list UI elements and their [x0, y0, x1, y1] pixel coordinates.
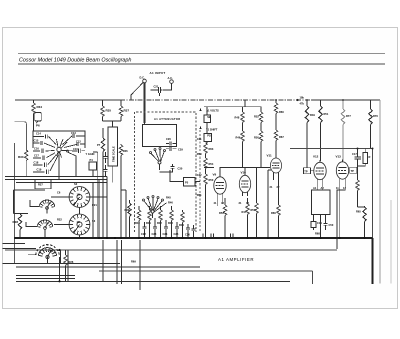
svg-text:47b: 47b [300, 102, 305, 106]
resistor R50 [204, 174, 207, 184]
amplifier band bottom line [99, 271, 313, 284]
wire x33 drop [33, 100, 35, 103]
svg-text:TP: TP [351, 169, 355, 173]
svg-text:C14: C14 [36, 132, 41, 136]
resistor R57 [256, 168, 258, 204]
svg-text:C16: C16 [34, 146, 39, 150]
resistor R64 box [363, 153, 368, 164]
svg-text:TP: TP [304, 169, 308, 173]
capacitor C30b [323, 224, 327, 226]
title rule top [18, 52, 385, 54]
capacitor C24 [164, 227, 168, 229]
junction dots on bus [98, 237, 100, 239]
svg-text:P5: P5 [185, 181, 189, 185]
wire x121 drop [120, 190, 122, 238]
arrow dashed column b [199, 126, 201, 129]
svg-text:R61: R61 [197, 193, 202, 197]
svg-text:R53: R53 [219, 211, 224, 215]
potentiometer P7 [102, 128, 104, 138]
amplifier band top line [5, 249, 337, 251]
wire S2 left [51, 196, 107, 198]
wire S2-S3 link [79, 207, 81, 238]
switch S7 contacts [143, 199, 145, 201]
svg-text:R33: R33 [18, 155, 24, 159]
resistor R66 [278, 180, 280, 205]
capacitor C33 [211, 234, 214, 238]
resistor R39 [129, 200, 131, 203]
svg-text:R27: R27 [38, 183, 43, 187]
svg-text:R45: R45 [166, 196, 171, 200]
svg-text:R48: R48 [235, 116, 240, 120]
svg-text:C18: C18 [34, 160, 39, 164]
svg-text:R46: R46 [236, 136, 241, 140]
svg-text:R39: R39 [125, 208, 130, 212]
junction dots top bus [306, 99, 308, 101]
switch S7 hub [151, 210, 154, 213]
resistor R42 [160, 206, 162, 210]
resistor R43 [171, 206, 173, 210]
attenuator inner screen box [143, 125, 177, 147]
wire triple rail 2 [5, 179, 107, 181]
wire S4 output [59, 152, 76, 180]
svg-text:R42: R42 [157, 221, 162, 225]
resistor R63 [204, 143, 207, 153]
svg-text:R68: R68 [315, 231, 320, 235]
wire [205, 168, 207, 174]
resistor R34 [32, 103, 35, 113]
svg-text:R36: R36 [123, 149, 128, 153]
wire triple rail 1 [5, 176, 107, 178]
capacitor C19b [311, 222, 316, 228]
resistor R53 [224, 198, 226, 205]
rotary switch S2 wafer [69, 187, 90, 208]
svg-text:R57: R57 [251, 208, 256, 212]
capacitor C9 [103, 170, 107, 172]
wire x99 drop [98, 180, 100, 239]
svg-text:R69: R69 [131, 260, 136, 264]
svg-text:C31: C31 [197, 137, 202, 141]
svg-text:TIME SCALE: TIME SCALE [112, 146, 116, 162]
svg-text:R: R [369, 155, 371, 159]
wire A.C. to C21 [163, 83, 172, 90]
svg-text:A1: A1 [313, 186, 317, 190]
svg-text:C20: C20 [166, 137, 171, 141]
resistor R46 [241, 131, 244, 141]
svg-text:A1 INPUT: A1 INPUT [150, 71, 166, 75]
wire x126 drop [121, 190, 126, 238]
resistor R47 [247, 198, 249, 204]
wire x97 drop [93, 152, 98, 238]
svg-text:C22: C22 [141, 232, 146, 236]
svg-text:C10: C10 [73, 147, 78, 151]
switch fan S8 (gain preset) [38, 248, 56, 259]
wire V11 legs [274, 173, 279, 181]
rail y278 [16, 278, 75, 280]
wire fan S8 taps [28, 255, 60, 282]
rail y267 [16, 266, 200, 268]
switch S6 fan contacts [150, 152, 152, 154]
svg-text:P6: P6 [36, 124, 40, 128]
test point TP2 [350, 167, 357, 173]
capacitor C22 [142, 227, 146, 229]
capacitor C34 [231, 234, 234, 238]
rail y243 stub [3, 243, 26, 245]
svg-text:P7: P7 [97, 143, 101, 147]
junction dot rail [58, 280, 60, 282]
main HT bus [14, 237, 373, 239]
potentiometer P4 [89, 162, 97, 170]
svg-text:C32: C32 [197, 173, 202, 177]
svg-text:R54: R54 [209, 162, 214, 166]
wire right bus drop [379, 100, 381, 284]
svg-text:C21: C21 [154, 85, 159, 89]
wire P4 drop [92, 183, 94, 239]
svg-text:A1 AMPLIFIER: A1 AMPLIFIER [218, 257, 254, 262]
wire volts top feed [204, 107, 261, 143]
wire x117 drop [116, 240, 118, 284]
svg-text:R60: R60 [279, 110, 284, 114]
svg-text:C23: C23 [152, 232, 157, 236]
resistor R58 [357, 166, 359, 180]
svg-text:C17: C17 [352, 152, 357, 156]
top bus [15, 99, 120, 101]
svg-text:R50: R50 [209, 178, 214, 182]
resistor R40 [138, 206, 140, 210]
svg-text:R59: R59 [197, 152, 202, 156]
resistor R37 [120, 100, 122, 106]
wire bracket left [14, 190, 46, 214]
wire triple rail 3 [16, 182, 107, 184]
svg-text:R28: R28 [13, 220, 19, 224]
resistor R48 [242, 107, 244, 112]
rail y281 [16, 280, 290, 282]
svg-text:C50: C50 [329, 223, 334, 227]
svg-text:R50: R50 [254, 136, 259, 140]
svg-text:C6: C6 [57, 191, 61, 195]
svg-text:C29: C29 [178, 148, 183, 152]
wire x107 drop [106, 177, 108, 239]
svg-text:R47: R47 [242, 210, 247, 214]
svg-text:C13: C13 [71, 131, 76, 135]
svg-text:Y1 SHIFT: Y1 SHIFT [206, 127, 218, 131]
potentiometer P5 box [184, 178, 196, 187]
test point TP1 [304, 168, 311, 174]
svg-text:Cossor Model 1049 Double Beam: Cossor Model 1049 Double Beam Oscillogra… [19, 58, 131, 64]
svg-text:18b: 18b [300, 96, 305, 100]
svg-text:C19: C19 [37, 168, 42, 172]
junction dot [58, 249, 60, 251]
wire diagonal from D.C. terminal [131, 82, 143, 100]
svg-text:R51: R51 [324, 112, 329, 116]
wire [205, 153, 207, 158]
resistor R44 [182, 210, 184, 212]
HT bus right drop [372, 238, 374, 284]
svg-text:R35: R35 [106, 109, 112, 113]
A1 attenuator capacitor bank box [33, 131, 85, 148]
svg-text:R22: R22 [57, 218, 62, 222]
svg-text:R65: R65 [356, 210, 361, 214]
svg-text:R52: R52 [254, 115, 259, 119]
svg-text:R67: R67 [279, 135, 284, 139]
screened lead from D.C. terminal (tight zigzag) [144, 83, 146, 125]
resistor R35 [102, 100, 104, 106]
svg-text:C24: C24 [163, 232, 168, 236]
resistor R77 [342, 100, 344, 109]
capacitor C28 [203, 234, 206, 238]
wire x60 drop [60, 250, 62, 264]
resistor R76 [370, 100, 372, 109]
wire [205, 184, 207, 238]
rail y275 [16, 275, 75, 277]
wire V12 legs [317, 183, 323, 190]
switch S6 hub [158, 161, 161, 164]
svg-text:1B: 1B [77, 193, 80, 197]
wire to V11 [275, 140, 277, 157]
node C18b/R47b junction [296, 99, 298, 101]
svg-text:R76: R76 [373, 114, 378, 118]
arrow dashed column a [199, 108, 201, 111]
wire S3 left [54, 224, 69, 226]
svg-text:P4: P4 [90, 158, 94, 162]
resistor R60 [275, 100, 277, 103]
switch fan S1b [37, 220, 53, 230]
resistor R52 [260, 107, 262, 112]
potentiometer P6 [33, 113, 35, 131]
wire V13 legs [337, 183, 345, 250]
svg-text:R43: R43 [168, 221, 173, 225]
svg-text:4B: 4B [77, 220, 80, 224]
svg-text:R37: R37 [124, 109, 130, 113]
svg-text:C17: C17 [34, 153, 39, 157]
wire TP1 [311, 170, 314, 172]
rail y248 stub [3, 247, 37, 249]
wire fan S1b feed [26, 222, 45, 238]
svg-text:C26: C26 [185, 233, 190, 237]
svg-text:V12: V12 [313, 155, 319, 159]
wire V9 anode [220, 168, 232, 175]
svg-text:S2: S2 [74, 182, 78, 186]
svg-text:C25: C25 [174, 232, 179, 236]
resistor R67 [275, 113, 277, 130]
time scale box [108, 127, 118, 166]
A1 attenuator shield dashed box [135, 112, 197, 232]
wire x140 drop [139, 240, 141, 290]
rotary switch S4 hub [57, 147, 61, 151]
svg-text:R40: R40 [135, 221, 140, 225]
svg-text:R46: R46 [168, 201, 173, 205]
rotary switch S3 wafer [69, 214, 90, 235]
wire V10 anode [244, 168, 246, 174]
capacitor C8 [103, 157, 107, 159]
wire v9 legs [217, 198, 223, 207]
resistor R51 [320, 100, 322, 106]
svg-text:S3: S3 [92, 219, 96, 223]
svg-text:R34: R34 [37, 105, 43, 109]
wire V11 cathode drop [268, 170, 271, 238]
wire x121.5 drop [121, 240, 123, 284]
capacitor C26 [186, 228, 190, 230]
svg-text:V11: V11 [267, 154, 273, 158]
resistor R29 [65, 250, 67, 255]
wire below timescale [112, 166, 114, 183]
wire far right vertical [390, 200, 392, 284]
wire x68 drop [67, 250, 69, 281]
resistor R49 [306, 100, 308, 106]
wire left rail [14, 143, 16, 264]
svg-text:A1 VOLTS: A1 VOLTS [206, 109, 219, 113]
resistor R33 [25, 150, 28, 160]
svg-text:R66: R66 [271, 211, 276, 215]
screen box under V12 [312, 190, 331, 215]
svg-text:A1 ATTENUATOR: A1 ATTENUATOR [154, 117, 181, 121]
wire grid feed [204, 167, 214, 169]
capacitor C27 [191, 229, 195, 231]
svg-text:R77: R77 [346, 114, 351, 118]
rail y263 [3, 263, 121, 265]
wire R35-R37 join [103, 121, 122, 127]
svg-text:V13: V13 [336, 155, 342, 159]
wire fan S1a feed [30, 200, 47, 214]
wire grid bus [204, 167, 270, 169]
capacitor C29 [170, 147, 172, 151]
capacitor C25 [175, 227, 179, 229]
resistor R41 [149, 206, 151, 210]
svg-text:R44: R44 [179, 223, 184, 227]
resistor box R27 [35, 179, 51, 189]
resistor R56 [259, 131, 262, 141]
wire bracket top [15, 122, 27, 150]
svg-text:C15: C15 [34, 139, 39, 143]
resistor R54 [204, 158, 207, 168]
resistor R36 [120, 144, 122, 145]
switch fan S1a [39, 200, 55, 210]
svg-text:R49: R49 [310, 113, 315, 117]
svg-text:C19: C19 [317, 221, 322, 225]
wire x103 drop [102, 177, 104, 282]
svg-text:R41: R41 [146, 221, 151, 225]
capacitor C23 [153, 227, 157, 229]
svg-text:R63: R63 [209, 147, 214, 151]
wire right feed [290, 149, 373, 239]
wire bus stub x245 [244, 100, 246, 107]
svg-text:V9: V9 [213, 173, 217, 177]
resistor R28 [19, 213, 21, 216]
svg-text:C30: C30 [178, 167, 183, 171]
title rule bottom [18, 63, 385, 65]
